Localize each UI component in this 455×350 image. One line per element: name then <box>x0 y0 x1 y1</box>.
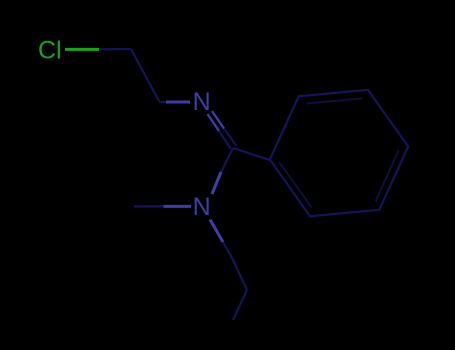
benzene inner double bond BL-L (dark) <box>279 162 312 207</box>
bond C3-N2 (nitrogen half, blue) <box>212 172 221 194</box>
benzene inner double bond R-BR (dark) <box>375 151 398 202</box>
bond Cl-C1 (chlorine half, green) <box>65 48 99 51</box>
bond C2-N1 (carbon half, dark) <box>159 101 168 103</box>
bond N2-C5 (nitrogen half, blue) <box>210 220 223 243</box>
bond C3-phenyl ipso (dark) <box>233 148 270 160</box>
double bond N1=C3 line b (carbon half, dark) <box>224 129 236 146</box>
benzene ring outline (dark) <box>270 90 408 216</box>
svg-text:Cl: Cl <box>38 37 62 65</box>
bond C6-C7 terminal methyl (dark) <box>233 290 247 320</box>
bond N2-C4 methyl (nitrogen half, blue) <box>164 205 192 208</box>
double bond N1=C3 line b (nitrogen half, blue) <box>212 111 224 129</box>
svg-text:N: N <box>193 193 211 221</box>
svg-text:N: N <box>193 88 211 116</box>
bond Cl-C1 (carbon half, dark) <box>99 48 131 51</box>
bond N2-C4 methyl (carbon half, dark) <box>134 205 164 207</box>
bond N2-C5 (carbon half, dark) <box>223 242 232 258</box>
bond C3-N2 (carbon half, dark) <box>221 148 233 172</box>
benzene inner double bond TL-TR (dark) <box>307 98 363 103</box>
bond C1-C2 (dark) <box>131 49 159 101</box>
bond C2-N1 (nitrogen half, blue) <box>166 101 190 104</box>
double bond N1=C3 line a (carbon half, dark) <box>219 131 231 149</box>
double bond N1=C3 line a (nitrogen half, blue) <box>208 114 220 131</box>
bond C5-C6 (dark) <box>232 258 247 290</box>
